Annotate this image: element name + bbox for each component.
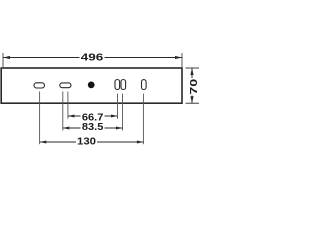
dimension line 66.7 (68, 115, 118, 117)
center filled circle (mount hole) (88, 82, 95, 89)
label 496 (80, 52, 105, 62)
svg-text:83.5: 83.5 (82, 122, 104, 133)
svg-text:496: 496 (81, 53, 104, 64)
extension line 66.7 left (67, 92, 69, 119)
slot hole left (oval 1) (34, 83, 45, 88)
extension line 66.7 right (117, 94, 119, 119)
dimension line 496 (3, 57, 182, 59)
vertical slot 2 (121, 80, 126, 90)
extension line 130 right (142, 94, 144, 145)
label 130 (76, 137, 97, 147)
fixture body outline rectangle (1, 68, 182, 103)
vertical slot 3 (142, 80, 147, 90)
label 83.5 (81, 123, 105, 133)
extension tick 70 bottom (186, 102, 200, 104)
label 70 (rotated) (187, 78, 197, 96)
extension line below oval1 (39, 92, 41, 145)
extension line 496 right (181, 53, 183, 67)
svg-text:70: 70 (189, 78, 200, 95)
vertical slot 1 (115, 80, 120, 90)
extension tick 70 top (186, 67, 200, 69)
extension line 496 left (2, 53, 4, 67)
dimension line 70 (191, 68, 193, 103)
extension line 83.5 right (122, 94, 124, 131)
slot hole second (oval 2) (60, 83, 71, 88)
svg-text:130: 130 (77, 136, 96, 147)
dimension line 83.5 (63, 127, 123, 129)
label 66.7 (81, 111, 105, 121)
dimension line 130 (40, 141, 144, 143)
extension line 83.5 left (62, 92, 64, 131)
